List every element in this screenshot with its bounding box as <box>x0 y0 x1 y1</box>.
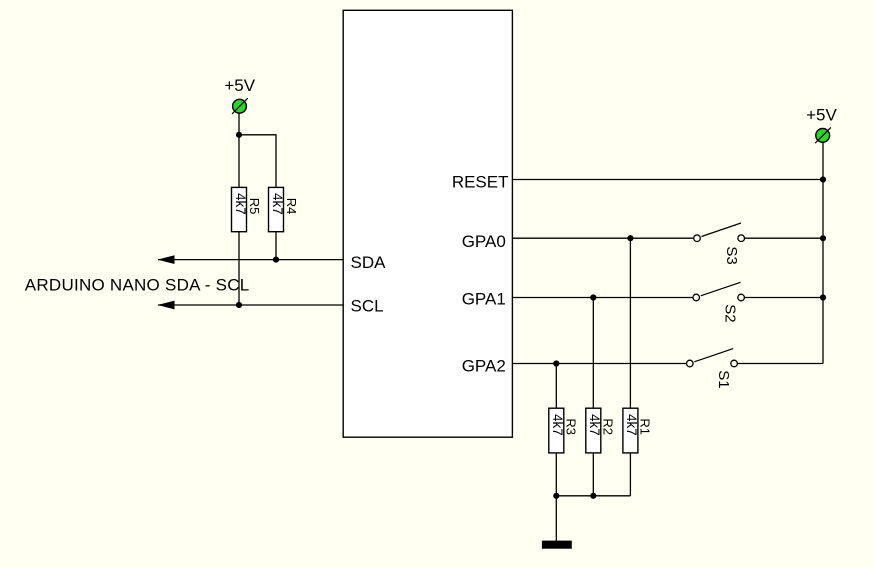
wire GPA0 left segment <box>512 237 693 239</box>
wire GPA2 left segment <box>512 363 686 365</box>
switch S1 <box>687 349 738 367</box>
switch S3 <box>694 223 745 242</box>
svg-text:4k7: 4k7 <box>550 414 565 436</box>
wire SDA horizontal <box>158 259 343 261</box>
wire R5 bottom to SCL <box>238 232 240 305</box>
svg-text:S1: S1 <box>715 370 732 388</box>
svg-text:SCL: SCL <box>351 297 384 316</box>
arrow SCL (points left) <box>158 301 175 310</box>
node junction R2 / bus <box>590 493 596 499</box>
wire R1 drop from GPA0 <box>629 238 631 408</box>
node junction R3 / GPA2 <box>553 360 559 366</box>
wire R3 drop from GPA2 <box>555 364 557 409</box>
wire SCL horizontal <box>158 304 343 306</box>
wire R2 bottom <box>592 453 594 496</box>
switch S2 <box>693 282 744 301</box>
svg-text:RESET: RESET <box>452 172 509 191</box>
wire R4 bottom to SDA <box>275 232 277 260</box>
svg-text:R1: R1 <box>638 418 653 435</box>
svg-text:+5V: +5V <box>224 76 255 95</box>
svg-text:SDA: SDA <box>351 253 387 272</box>
wire +5V rail (right) <box>822 142 824 364</box>
power +5V symbol (left): green circle with slash <box>232 98 248 114</box>
resistor R3 body <box>549 408 565 453</box>
svg-text:4k7: 4k7 <box>233 193 248 215</box>
svg-text:GPA1: GPA1 <box>462 290 506 309</box>
wire ground stem <box>555 496 557 541</box>
IC U1 body <box>343 10 512 437</box>
resistor R5 body <box>232 187 248 231</box>
svg-text:ARDUINO NANO SDA - SCL: ARDUINO NANO SDA - SCL <box>25 275 250 294</box>
resistor R2 body <box>586 408 602 453</box>
wire GPA1 left segment <box>512 297 692 299</box>
wire bottom bus <box>556 495 630 497</box>
svg-text:R2: R2 <box>601 418 616 435</box>
node junction R2 / GPA1 <box>590 294 596 300</box>
node junction R1 / GPA0 <box>627 235 633 241</box>
svg-text:S2: S2 <box>722 304 739 322</box>
svg-text:S3: S3 <box>723 246 740 264</box>
resistor R1 body <box>623 408 639 453</box>
node junction R5 / SCL <box>236 302 242 308</box>
wire RESET <box>512 179 823 181</box>
ground <box>542 541 572 549</box>
node junction +5V / R5 / R4 <box>236 132 242 138</box>
wire junction to R4 top <box>239 135 276 188</box>
svg-text:R3: R3 <box>564 418 579 435</box>
node junction R4 / SDA <box>273 257 279 263</box>
svg-text:4k7: 4k7 <box>587 414 602 436</box>
wire GPA0 right segment <box>745 237 823 239</box>
svg-text:4k7: 4k7 <box>624 414 639 436</box>
arrow SDA (points left) <box>158 255 175 264</box>
resistor R4 body <box>269 187 285 231</box>
wire GPA2 right segment <box>737 363 823 365</box>
svg-text:R5: R5 <box>247 198 262 215</box>
wire GPA1 right segment <box>745 297 823 299</box>
wire R2 drop from GPA1 <box>592 298 594 409</box>
svg-text:R4: R4 <box>284 198 299 215</box>
svg-text:GPA0: GPA0 <box>462 232 506 251</box>
node junction R3 / bus <box>553 493 559 499</box>
power +5V symbol (right): green circle with slash <box>815 127 831 143</box>
wire R3 bottom <box>555 453 557 496</box>
wire R1 bottom <box>629 453 631 496</box>
svg-text:4k7: 4k7 <box>270 193 285 215</box>
wire +5V stem to junction <box>238 113 240 189</box>
node junction GPA0 / rail <box>820 235 826 241</box>
node junction GPA1 / rail <box>820 294 826 300</box>
svg-text:GPA2: GPA2 <box>462 357 506 376</box>
node junction RESET / rail <box>820 176 826 182</box>
svg-text:+5V: +5V <box>806 105 837 124</box>
